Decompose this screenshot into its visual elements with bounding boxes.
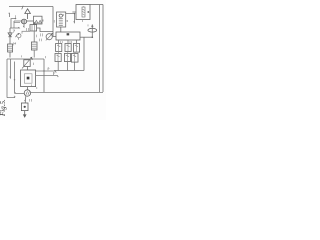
junction dot right of T1	[31, 58, 33, 60]
diode D1 (triangle to top rail)	[25, 9, 31, 19]
wire ellipse right lead	[27, 20, 34, 22]
wire x44 vertical	[43, 59, 45, 92]
wire R2 bottom	[33, 50, 35, 58]
wire Y1 left lead	[72, 11, 76, 13]
wire battery right to x53	[37, 28, 53, 32]
label 2 tick near T1	[22, 55, 34, 65]
drops from U3 to row1	[59, 40, 77, 44]
dark mark in U3	[67, 33, 70, 35]
cell boxes row2 col3	[71, 54, 78, 63]
wire M2 bottom lead	[27, 87, 29, 90]
cell boxes row1 col3	[73, 44, 79, 53]
wire corner upper-left B	[14, 23, 20, 28]
label 8 pointer above coil	[87, 24, 89, 26]
wire top-left rail	[9, 6, 53, 8]
variable element V1 (circle with arrow)	[46, 34, 52, 40]
meter M1 (small ellipse)	[21, 19, 26, 24]
wire top-right rail	[90, 4, 103, 6]
wire corner upper-left A	[11, 19, 16, 28]
wire x84 down	[83, 37, 85, 70]
arrow below X1	[24, 111, 26, 117]
label 7 slanted tick on rail	[22, 6, 24, 10]
wire left border x7	[7, 59, 15, 98]
label k tick	[48, 68, 49, 71]
sensor box X1 (box with dot)	[21, 103, 28, 111]
label 9 tick	[32, 84, 37, 89]
label 12 ticks	[27, 28, 29, 31]
label 12 ticks near R1	[14, 42, 16, 45]
wire coil bottom to x84	[80, 36, 92, 38]
label h tick	[53, 72, 54, 75]
wire M2 right lead lower	[36, 76, 59, 78]
contacts inside K1	[35, 20, 42, 23]
label 12b ticks	[39, 39, 41, 42]
wire R1 bottom	[9, 52, 11, 58]
wire T1 to motor box	[26, 67, 28, 71]
wire battery down to R2	[33, 31, 35, 42]
crystal box Y1 (top right box)	[76, 5, 90, 20]
junction dot pill bottom	[92, 36, 94, 38]
generator G1 (circle with slashes)	[24, 90, 30, 96]
wire G1 to X-box	[25, 96, 26, 103]
wire row2 bottoms to rail	[58, 62, 74, 71]
wire M2 right lead upper	[36, 71, 57, 73]
trimmer T1 (box with diagonal arrow)	[24, 60, 30, 67]
block U3 (long horizontal box)	[56, 32, 80, 40]
resistor R2 (box with hatches)	[31, 42, 37, 50]
cell boxes row1 col2	[65, 44, 71, 52]
label h tick near x44 top	[45, 56, 47, 58]
wire U2 bottom lead	[60, 27, 62, 32]
inner square of M2	[24, 74, 32, 83]
wire battery bottom stub	[22, 30, 30, 32]
coil L1 (pill)	[88, 28, 97, 32]
wire rail y70.5	[54, 70, 84, 72]
resistor R1 (left box with hatches)	[8, 44, 13, 52]
wire right border outer	[102, 5, 104, 93]
wire y57.5 horizontal	[7, 58, 44, 60]
cell boxes row2 col1	[55, 54, 61, 62]
wire coil vertical	[91, 24, 93, 37]
label 16 ticks	[41, 33, 43, 36]
stub wire x14.5 with dot	[15, 62, 25, 94]
svg-text:Fig.5.: Fig.5.	[0, 99, 7, 117]
junction dot in Y1 right	[87, 11, 89, 13]
links row1-row2	[58, 52, 75, 54]
labels 10a 10b specks	[61, 41, 72, 43]
crystal Y1 inner element	[82, 7, 85, 17]
label 7 tick	[13, 30, 15, 33]
node label 1 (tick near rail left)	[9, 13, 10, 17]
stub below Y1	[82, 20, 84, 23]
label 5 (tick right of K1)	[42, 20, 44, 22]
label 3 ticks	[30, 99, 32, 102]
wire ellipse bottom lead	[22, 24, 25, 27]
cell boxes row1 col1	[56, 44, 62, 52]
wire left vertical x10 upper	[9, 28, 11, 44]
motor box M2 (big box)	[21, 70, 36, 87]
relay box K1 (top middle)	[34, 16, 43, 24]
wire vertical x53 from rail	[53, 7, 56, 37]
stub wire x10.5 with arrow	[9, 59, 12, 78]
label 14 tick	[35, 35, 37, 38]
wire bus y28	[10, 26, 19, 29]
wire ellipse left lead	[14, 21, 21, 23]
battery B1 (box with hatches)	[30, 25, 37, 31]
label a tick	[14, 92, 15, 98]
wire bottom rail right	[31, 92, 103, 94]
junction dot x44 upper	[43, 70, 44, 71]
switch S1 (small box with diagonal)	[17, 34, 21, 38]
diode D2 on left vertical	[8, 33, 12, 37]
cell boxes row2 col2	[64, 54, 70, 62]
wire U2 top-right to pointer	[66, 14, 75, 23]
dark core of M2	[27, 77, 30, 80]
oscillator box U2 (small box with circle)	[57, 12, 66, 27]
junction dot A	[15, 18, 16, 19]
wire right border inner	[99, 5, 101, 93]
